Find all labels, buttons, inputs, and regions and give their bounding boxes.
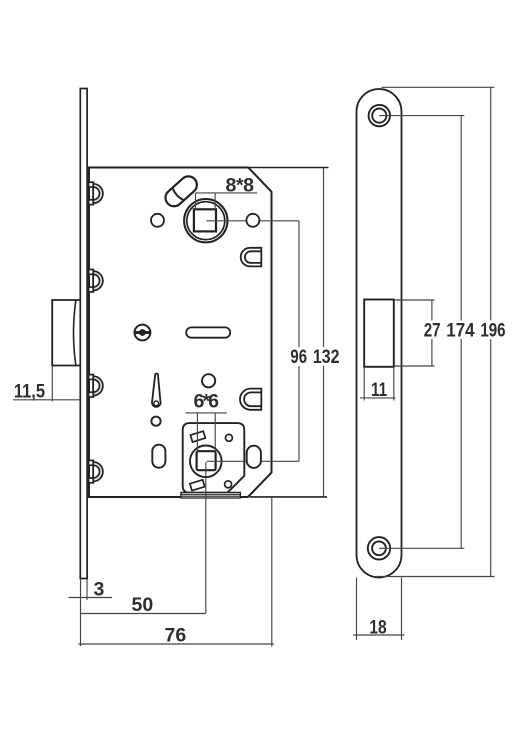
dim 11,5 [51,366,53,402]
svg-text:8*8: 8*8 [226,175,255,197]
dim 8*8 extension lines [196,192,258,194]
hole above 6*6 [202,374,215,387]
dim 6*6 extension lines [185,412,227,414]
label 11,5 [14,380,45,402]
keyhole cover D lower [240,389,261,410]
WC square center leader vertical [205,462,207,614]
dim line 174 [460,116,462,549]
dim 11 [363,367,365,401]
staple 3 [89,375,103,397]
dim 18 extensions [356,578,358,641]
leader bottom screw [379,547,464,549]
top screw hole outer [369,105,390,126]
dim line 96 [298,221,300,461]
horizontal slot capsule [186,327,230,337]
label 3 [94,578,105,600]
label 96 132 [288,347,342,366]
WC unit hole top right [225,434,232,441]
bottom screw hole inner [372,541,386,555]
dim 3 extensions [80,579,82,646]
WC unit clip top [190,431,205,442]
latch opening rect [364,300,394,367]
label 11 [371,379,387,401]
label 50 [132,594,154,616]
latch bolt [52,300,81,366]
staple 1 [89,182,103,204]
dim 76 [271,497,273,647]
svg-text:27: 27 [424,319,441,341]
small hole below teardrop [151,417,160,426]
bottom screw hole outer [368,537,390,559]
latch bevel curve [74,301,76,366]
WC square center leader horizontal [207,460,300,462]
svg-text:132: 132 [313,346,340,368]
dim line 196 [490,87,492,576]
body bottom edge extension [250,496,327,498]
leader plate bottom [376,576,494,578]
faceplate front outline [357,89,402,578]
body top edge extension [248,167,328,169]
dim line 27 [431,300,433,366]
staple 2 [89,270,103,292]
teardrop inner circle [154,401,159,406]
dim line 132 [323,168,325,497]
svg-text:11: 11 [371,379,387,401]
label 18 [369,617,386,639]
leader plate top [382,86,495,88]
svg-text:3: 3 [94,578,105,600]
svg-text:50: 50 [132,594,154,616]
label 27 174 196 [421,321,508,340]
spindle square hole 8*8 [194,209,216,231]
spindle center leader [207,220,300,222]
staple 4 [89,460,103,482]
bottom slide bar [181,492,241,498]
vertical capsule left of WC unit [152,445,165,468]
hole right of spindle [246,214,259,227]
svg-text:18: 18 [369,617,386,639]
WC unit clip bottom [190,480,205,491]
svg-text:96: 96 [290,346,307,368]
svg-text:174: 174 [446,319,474,341]
WC unit hole bottom right [225,481,232,488]
screw head [134,325,151,341]
WC square unit housing [183,423,245,493]
spindle hub outer circle [184,199,227,242]
WC unit circle [190,446,222,478]
bean-shaped cam slot [162,173,200,210]
top screw hole inner [372,109,386,123]
leader top screw [379,115,464,117]
svg-text:6*6: 6*6 [194,391,220,413]
lock body [89,168,272,498]
WC square hole 6*6 [197,451,216,470]
label 76 [165,624,187,646]
keyhole cover D upper [241,248,262,267]
spindle hub inner circle [187,202,225,240]
teardrop lever [152,374,161,407]
faceplate side view [80,89,87,579]
svg-text:196: 196 [480,319,505,341]
dim 50 [81,613,206,615]
svg-text:76: 76 [165,624,187,646]
oval right of WC unit [247,446,261,468]
svg-text:11,5: 11,5 [14,380,45,402]
hole left of spindle [151,214,164,227]
label 8*8 [226,175,255,197]
label 6*6 [194,391,220,413]
dim 27 ticks [394,299,435,301]
